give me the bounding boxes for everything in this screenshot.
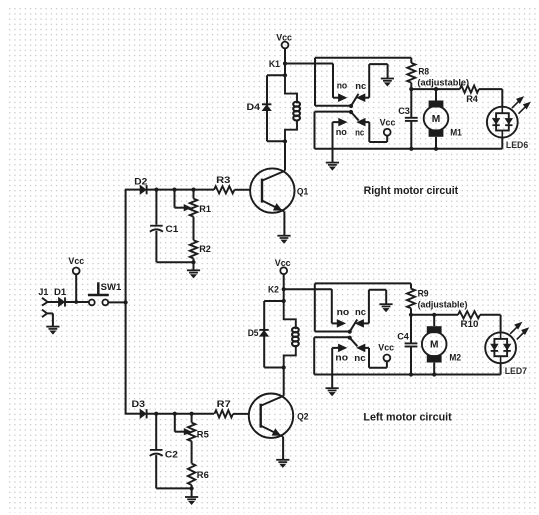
svg-text:no: no (337, 307, 350, 318)
wire (332, 348, 338, 388)
wire (motor bottom rail) (314, 374, 500, 376)
svg-text:M: M (430, 340, 439, 351)
wire (contact common) (315, 283, 411, 331)
node (172, 188, 176, 192)
caption: Left motor circuit (363, 412, 452, 424)
svg-text:D1: D1 (54, 287, 67, 298)
wire (501, 138, 503, 149)
wire (282, 437, 284, 460)
svg-text:R9: R9 (418, 288, 429, 299)
wire (147, 413, 214, 415)
resistor R9 (adjustable) (407, 283, 467, 314)
ground (379, 304, 392, 312)
connector J1 (38, 287, 49, 317)
node (173, 412, 177, 416)
wire (365, 348, 387, 368)
wire (contact common 2) (314, 337, 350, 374)
svg-text:K2: K2 (268, 285, 279, 296)
Vcc terminal (K1) (276, 32, 292, 48)
node K1 (269, 59, 287, 70)
wire (191, 488, 193, 497)
capacitor C3 (398, 89, 418, 149)
node (pivot K1-a) (349, 104, 353, 108)
ground (381, 79, 394, 87)
wire (285, 64, 339, 98)
resistor R2 (190, 240, 211, 262)
svg-text:LED6: LED6 (506, 140, 528, 151)
relay contact K1-b (no) (336, 118, 347, 138)
node (pivot K1-b) (349, 110, 353, 114)
resistor R7 (214, 399, 233, 418)
svg-text:nc: nc (355, 81, 366, 92)
resistor R4 (460, 86, 479, 105)
svg-text:R2: R2 (199, 244, 211, 255)
svg-text:C2: C2 (165, 450, 178, 461)
capacitor C1 (150, 190, 179, 263)
wire (contact common 2) (315, 112, 352, 149)
svg-text:D4: D4 (247, 102, 261, 113)
svg-text:C3: C3 (398, 106, 410, 117)
wire (365, 64, 388, 98)
svg-text:R7: R7 (217, 399, 231, 410)
wire (284, 48, 286, 63)
wire (contact common) (315, 58, 411, 106)
node (pivot K2-a) (348, 330, 352, 334)
relay contact K2-b (nc) (354, 344, 365, 364)
wire (364, 290, 387, 324)
wire (contact blade K2-b) (350, 338, 358, 347)
node (190, 486, 194, 490)
wire (480, 315, 501, 333)
transistor Q2 (249, 394, 309, 438)
ground (326, 388, 339, 396)
ground (185, 497, 198, 505)
wire (283, 368, 285, 396)
svg-text:no: no (335, 352, 348, 363)
wire (156, 487, 191, 489)
svg-text:R5: R5 (197, 430, 210, 441)
Vcc terminal (input) (68, 256, 84, 274)
svg-text:D3: D3 (132, 399, 146, 410)
ground (46, 327, 59, 335)
wire (contact blade K2-a) (350, 320, 358, 332)
node (432, 313, 436, 317)
wire (284, 64, 286, 76)
diode D4 (247, 102, 272, 113)
svg-text:R3: R3 (216, 175, 230, 186)
svg-text:D2: D2 (134, 176, 147, 187)
svg-text:nc: nc (354, 353, 365, 364)
node (191, 188, 195, 192)
svg-text:SW1: SW1 (101, 282, 122, 293)
relay coil K1 (285, 75, 300, 141)
capacitor C4 (397, 315, 417, 375)
svg-text:R4: R4 (466, 94, 478, 105)
svg-text:C4: C4 (397, 331, 409, 342)
svg-text:M1: M1 (450, 127, 462, 138)
wire (relay K2 frame) (264, 301, 284, 368)
wire (234, 189, 250, 191)
Vcc terminal (K1 contact) (380, 118, 396, 136)
resistor R8 (adjustable) (407, 58, 469, 89)
svg-text:R1: R1 (199, 204, 211, 215)
wire (156, 261, 193, 263)
svg-text:D5: D5 (248, 328, 259, 339)
node (409, 87, 413, 91)
resistor R6 (188, 464, 209, 489)
wire (contact blade K1-b) (351, 112, 359, 121)
node (283, 73, 287, 77)
node (409, 147, 413, 151)
ground (326, 163, 339, 171)
svg-text:R8: R8 (418, 67, 429, 78)
wire (108, 301, 125, 303)
svg-text:no: no (336, 127, 347, 138)
wire (47, 313, 53, 326)
svg-text:K1: K1 (269, 59, 281, 70)
svg-text:(adjustable): (adjustable) (418, 300, 468, 311)
node (154, 188, 158, 192)
wire (333, 122, 339, 162)
svg-text:Vcc: Vcc (68, 256, 84, 267)
node (283, 139, 287, 143)
wire (65, 301, 89, 303)
motor M1 (424, 89, 463, 149)
wire (75, 274, 77, 302)
wire (125, 413, 140, 415)
relay contact K2-a (no) (337, 307, 350, 327)
svg-text:Left motor circuit: Left motor circuit (363, 412, 452, 424)
diode D1 (54, 287, 67, 307)
node (190, 412, 194, 416)
svg-text:Right motor circuit: Right motor circuit (364, 185, 459, 197)
diode D5 (248, 328, 269, 339)
wire (283, 289, 285, 301)
svg-text:C1: C1 (166, 224, 180, 235)
wire (233, 413, 249, 415)
node (154, 412, 158, 416)
wire (relay K1 frame) (267, 75, 285, 141)
capacitor C2 (150, 414, 178, 489)
switch SW1 (88, 282, 122, 305)
ground (187, 270, 200, 278)
svg-text:nc: nc (355, 127, 364, 138)
caption: Right motor circuit (364, 185, 459, 197)
wire (500, 363, 502, 374)
resistor R3 (214, 175, 234, 193)
wire (193, 262, 195, 270)
motor M2 (422, 315, 461, 375)
node (SW1/bus junction) (124, 300, 128, 304)
LED6 (487, 97, 530, 151)
wire (411, 88, 460, 90)
node (pivot K2-b) (348, 336, 352, 340)
node (434, 147, 438, 151)
wire (365, 122, 387, 142)
resistor R10 (458, 311, 480, 330)
svg-text:M2: M2 (449, 352, 461, 363)
wire (motor bottom rail) (315, 148, 503, 150)
transistor Q1 (250, 168, 309, 212)
svg-text:R6: R6 (197, 470, 209, 481)
node (282, 365, 286, 369)
wire (284, 141, 286, 170)
svg-text:Vcc: Vcc (378, 342, 394, 353)
node (282, 299, 286, 303)
svg-text:Q2: Q2 (297, 412, 308, 423)
Vcc terminal (K2) (275, 258, 291, 274)
node (434, 87, 438, 91)
svg-text:J1: J1 (38, 287, 49, 298)
wire (147, 189, 214, 191)
node (432, 372, 436, 376)
svg-text:nc: nc (355, 307, 366, 318)
wire (283, 212, 285, 236)
wire (284, 289, 338, 323)
wire (411, 314, 458, 316)
node K2 (268, 285, 286, 296)
wire (48, 301, 59, 303)
relay contact K1-b (nc) (355, 118, 365, 138)
node (191, 260, 195, 264)
svg-text:R10: R10 (461, 319, 479, 330)
svg-text:LED7: LED7 (505, 366, 527, 377)
relay contact K2-a (nc) (355, 307, 366, 327)
wire (283, 274, 285, 289)
relay contact K1-a (nc) (355, 81, 366, 102)
relay contact K2-b (no) (335, 344, 348, 363)
ground (276, 460, 289, 468)
svg-text:Q1: Q1 (297, 187, 309, 198)
ground (277, 236, 290, 244)
node (409, 372, 413, 376)
LED7 (485, 322, 528, 377)
relay contact K1-a (no) (337, 81, 348, 102)
node (Vcc/J1 junction) (74, 300, 78, 304)
diode D3 (132, 399, 147, 418)
wire (vertical bus) (125, 190, 127, 414)
diode D2 (134, 176, 147, 194)
node (409, 313, 413, 317)
svg-text:no: no (337, 81, 348, 92)
svg-text:M: M (432, 114, 441, 125)
Vcc terminal (K2 contact) (378, 342, 394, 361)
wire (contact blade K1-a) (351, 94, 359, 106)
relay coil K2 (284, 301, 299, 368)
wire (125, 189, 140, 191)
potentiometer R5 (175, 414, 210, 464)
potentiometer R1 (175, 190, 212, 241)
wire (479, 89, 503, 107)
svg-text:Vcc: Vcc (380, 118, 396, 129)
